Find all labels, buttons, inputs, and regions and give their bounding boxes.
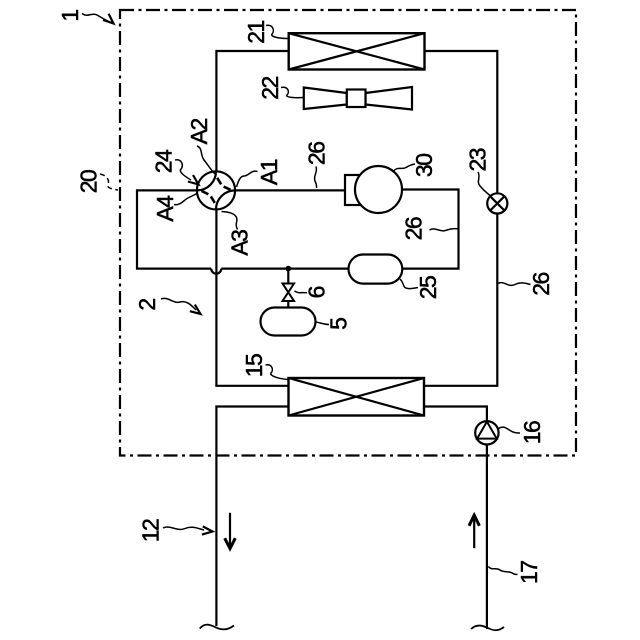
svg-text:12: 12	[137, 519, 163, 542]
svg-text:25: 25	[415, 276, 441, 299]
svg-text:6: 6	[303, 286, 329, 298]
svg-text:30: 30	[411, 154, 437, 177]
svg-text:24: 24	[151, 149, 177, 173]
svg-text:A3: A3	[227, 230, 253, 256]
svg-text:21: 21	[243, 21, 269, 44]
svg-text:2: 2	[134, 299, 160, 311]
svg-text:22: 22	[257, 77, 283, 100]
svg-text:26: 26	[304, 142, 330, 165]
svg-text:1: 1	[57, 10, 83, 22]
svg-text:26: 26	[528, 273, 554, 296]
svg-text:15: 15	[241, 354, 267, 377]
svg-text:20: 20	[76, 170, 102, 193]
svg-text:16: 16	[519, 421, 545, 444]
svg-text:A1: A1	[256, 159, 282, 185]
svg-text:A4: A4	[152, 195, 178, 222]
svg-text:26: 26	[401, 217, 427, 240]
svg-text:23: 23	[465, 148, 491, 171]
svg-text:A2: A2	[186, 119, 212, 145]
svg-text:5: 5	[326, 318, 352, 330]
svg-text:17: 17	[516, 561, 542, 584]
